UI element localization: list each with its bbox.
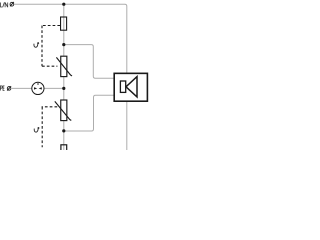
wire junction C to box lower input — [64, 95, 114, 131]
junction dot C — [62, 129, 65, 132]
speaker body rect — [120, 81, 125, 92]
label theta upper — [34, 42, 39, 47]
junction dot B (PE node) — [62, 87, 65, 90]
thermal disconnect dashed link lower — [42, 107, 58, 148]
junction dot A — [62, 43, 65, 46]
speaker horn triangle — [126, 77, 137, 97]
spark gap left electrode arrow — [34, 87, 37, 89]
varistor RV2 diagonal — [55, 101, 72, 120]
varistor RV1 diagonal — [56, 57, 72, 76]
label L/N — [1, 2, 8, 7]
wire junction A to box upper input — [64, 45, 114, 79]
varistor RV2 body — [61, 100, 67, 121]
wire PE horizontal — [12, 87, 64, 89]
wire box bottom output — [126, 102, 128, 150]
gas discharge tube (spark gap) circle — [32, 82, 44, 94]
fuse F2 (bottom, clipped at edge) — [61, 145, 67, 158]
label PE — [0, 86, 4, 91]
label theta lower — [34, 127, 39, 132]
thermal disconnect dashed link upper — [41, 26, 60, 67]
wire L/N horizontal to right corner down to box top — [14, 4, 127, 73]
terminal PE circle-slash — [7, 86, 11, 90]
junction dot top — [62, 3, 65, 6]
protected equipment box U1 — [114, 73, 147, 101]
varistor RV1 body — [61, 56, 67, 76]
spark gap right electrode arrow — [39, 87, 42, 89]
terminal L/N circle-slash — [10, 2, 14, 6]
fuse F1 (top disconnector) — [61, 17, 67, 30]
gas-filled indicator tick — [37, 83, 39, 85]
wire main vertical branch — [63, 4, 65, 150]
